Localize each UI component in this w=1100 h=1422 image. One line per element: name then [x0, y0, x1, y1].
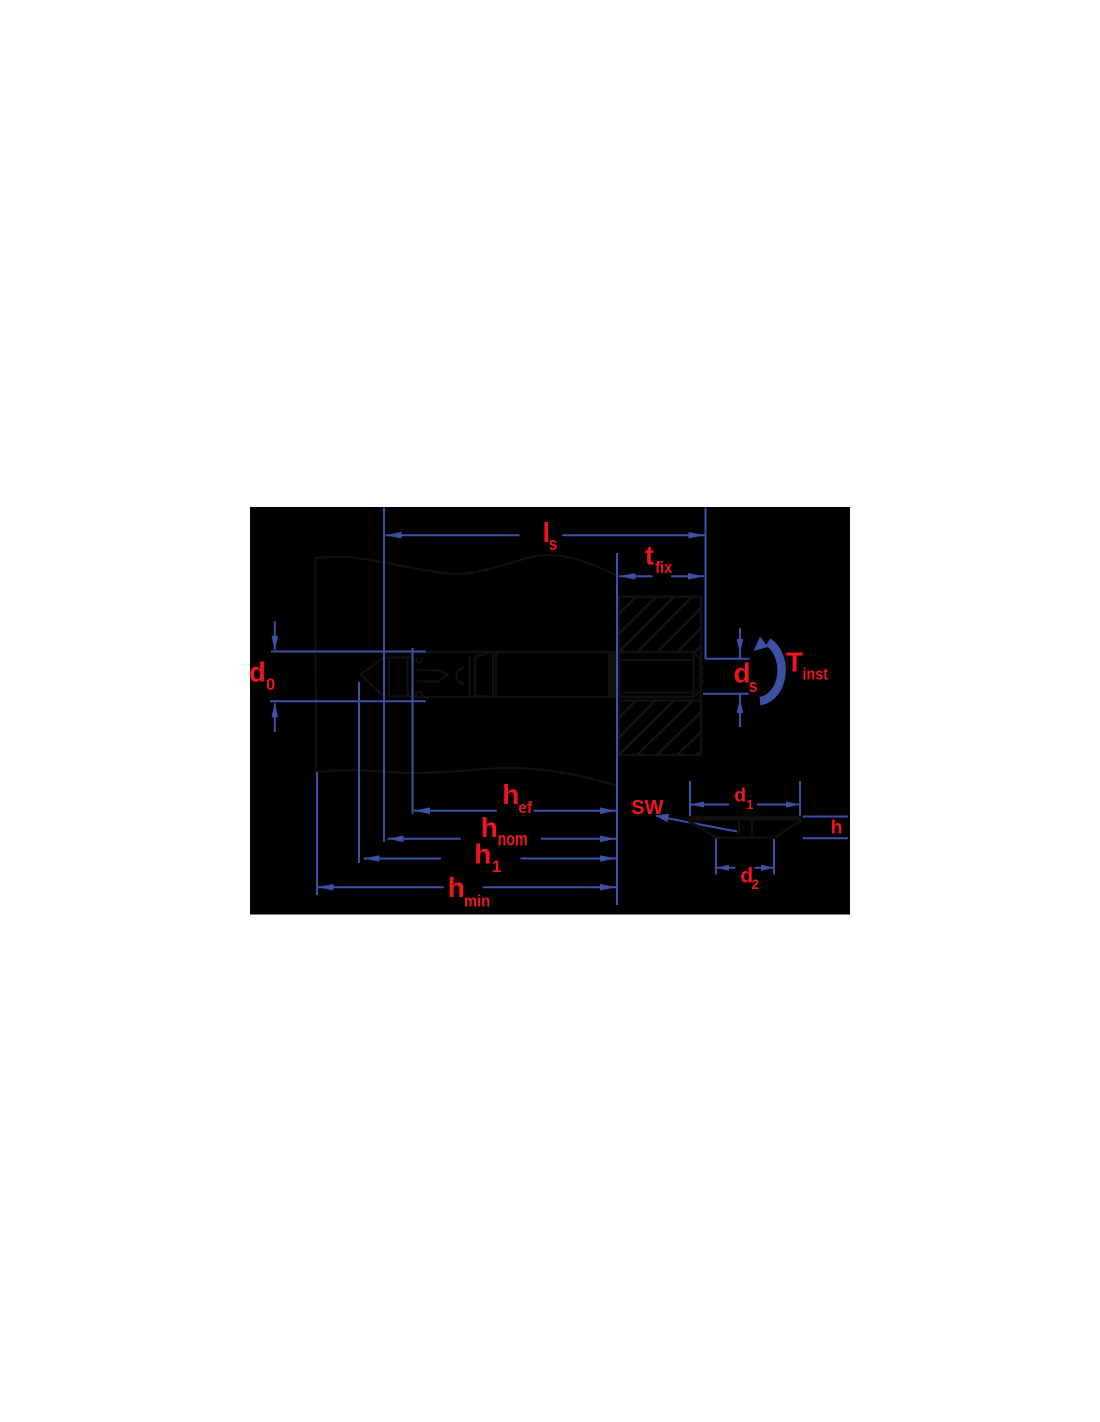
d1 dimension line — [690, 804, 729, 806]
ls left arrowhead — [386, 532, 402, 539]
d0 up arrowhead — [272, 702, 279, 717]
ds bottom line — [703, 693, 749, 695]
d2 ext left — [715, 839, 717, 875]
d2 ext right — [773, 839, 775, 875]
SW arrowhead — [656, 814, 670, 823]
clip tab top — [416, 658, 422, 663]
h1 dimension line — [364, 858, 442, 860]
bolt body top edge — [413, 651, 694, 653]
d1 right arrowhead — [786, 802, 800, 808]
ls dimension line — [386, 534, 520, 536]
svg-text:2: 2 — [751, 876, 759, 892]
concrete left edge — [314, 558, 317, 772]
ls right arrowhead — [689, 532, 705, 539]
bolt body bottom edge — [413, 696, 694, 698]
tfix left arrowhead — [620, 573, 636, 580]
svg-text:h: h — [831, 818, 843, 839]
expansion clip section — [384, 652, 413, 697]
ds top line — [706, 658, 750, 660]
torque arc — [760, 642, 782, 701]
svg-text:s: s — [549, 533, 558, 554]
black drawing box — [250, 507, 850, 915]
d2 right arrowhead — [761, 865, 774, 871]
h1 right arrowhead — [600, 855, 616, 862]
wall hatching bottom block — [619, 701, 701, 756]
svg-text:t: t — [645, 541, 654, 571]
svg-text:h: h — [474, 838, 491, 869]
svg-text:h: h — [502, 779, 519, 810]
h dim top line — [803, 816, 849, 818]
d1 left arrowhead — [690, 802, 704, 808]
washer center hole — [738, 821, 740, 836]
tfix dimension line — [619, 575, 653, 577]
section divider lines — [470, 652, 497, 697]
svg-text:min: min — [464, 892, 490, 911]
d1 ext right — [799, 781, 801, 817]
h1 left arrowhead — [364, 855, 380, 862]
svg-text:d: d — [249, 657, 266, 688]
collar band at wall face — [608, 652, 620, 697]
extension line ls left / hnom (x=384) — [383, 508, 385, 843]
d0 upper arrow stem — [274, 621, 276, 650]
svg-text:inst: inst — [803, 665, 829, 683]
clip tab bottom — [416, 692, 422, 697]
torque arc arrowhead — [754, 637, 769, 652]
h dim bottom line — [803, 837, 849, 839]
svg-text:1: 1 — [492, 857, 501, 876]
wall hatching top block — [619, 597, 701, 652]
hef dimension line — [414, 810, 497, 812]
svg-text:1: 1 — [746, 797, 753, 812]
hnom right arrowhead — [600, 836, 616, 843]
svg-text:fix: fix — [655, 558, 672, 577]
extension line hef left (x=412.5) — [412, 648, 414, 814]
washer cone left slope — [688, 821, 716, 838]
extension line h1 left (x=359) — [358, 682, 360, 863]
concrete top wavy edge — [316, 555, 619, 576]
SW leader line — [656, 816, 737, 832]
d0 down arrowhead — [272, 636, 279, 651]
concrete bottom wavy edge — [316, 768, 616, 786]
hef left arrowhead — [414, 807, 430, 814]
svg-text:nom: nom — [498, 830, 528, 851]
hnom dimension line — [388, 838, 461, 840]
svg-text:d: d — [734, 785, 746, 807]
hnom left arrowhead — [388, 836, 404, 843]
wall hole bottom edge — [619, 699, 701, 701]
d2 dimension line — [716, 867, 736, 869]
d1 ext left — [689, 781, 691, 817]
svg-text:h: h — [448, 872, 465, 903]
ds upper arrow stem — [739, 628, 741, 658]
bolt end section — [694, 652, 701, 697]
svg-text:s: s — [749, 676, 758, 696]
bolt inner lines through wall — [620, 659, 694, 661]
washer top bar — [688, 816, 801, 821]
thread nubs — [701, 666, 704, 683]
extension line ls right (x=705.5) — [705, 508, 707, 660]
tfix right arrowhead — [688, 573, 704, 580]
expansion slot bullet — [417, 670, 448, 681]
hef right arrowhead — [600, 807, 616, 814]
ds down arrowhead — [737, 639, 744, 653]
d0 bottom line — [270, 700, 426, 702]
bolt cone base line — [383, 658, 385, 697]
ds lower arrow stem — [739, 695, 741, 728]
d0 top line — [271, 651, 426, 653]
hmin right arrowhead — [600, 884, 616, 891]
fixture wall outline — [619, 597, 701, 755]
hmin left arrowhead — [318, 884, 334, 891]
bolt cone tip — [361, 658, 385, 697]
svg-text:SW: SW — [631, 797, 663, 819]
d2 left arrowhead — [716, 865, 729, 871]
ds up arrowhead — [737, 699, 744, 713]
extension line hmin left (x=317) — [316, 772, 318, 895]
washer cone right slope — [775, 821, 802, 838]
svg-text:T: T — [786, 647, 803, 678]
hmin dimension line — [318, 886, 444, 888]
slot notch arc — [457, 668, 465, 684]
svg-text:ef: ef — [518, 798, 532, 817]
arrowheads blue — [272, 532, 801, 891]
extension line concrete surface (x=617) — [616, 553, 618, 905]
svg-text:0: 0 — [266, 676, 275, 694]
washer cone bottom edge — [716, 837, 774, 839]
d0 lower arrow stem — [274, 704, 276, 733]
